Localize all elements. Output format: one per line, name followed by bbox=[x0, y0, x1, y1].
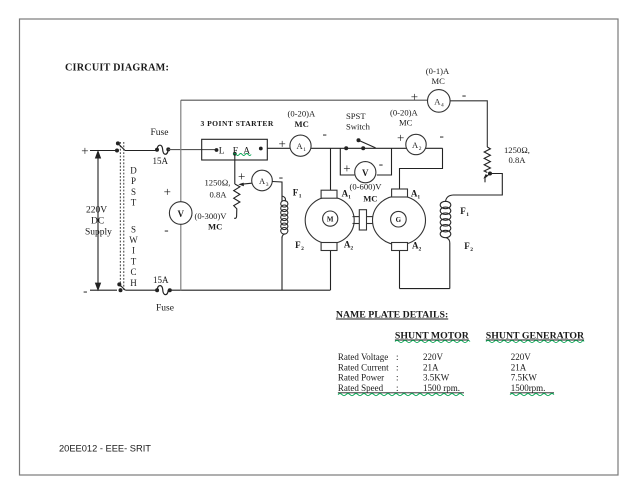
label DPST SWITCH vertical bbox=[129, 166, 138, 288]
voltmeter V600 loop wires bbox=[340, 148, 354, 175]
svg-text:21A: 21A bbox=[511, 363, 527, 373]
label (0-1)A MC bbox=[426, 66, 450, 86]
wire motor armature A2 down bbox=[330, 251, 332, 291]
fuse F2 bottom 15A bbox=[155, 286, 172, 295]
svg-text:1: 1 bbox=[417, 195, 420, 201]
svg-text:W: W bbox=[129, 235, 138, 245]
svg-text:Rated Current: Rated Current bbox=[338, 363, 389, 373]
svg-text:2: 2 bbox=[419, 146, 422, 152]
svg-text:1250Ω,: 1250Ω, bbox=[504, 145, 530, 155]
svg-text:SHUNT MOTOR: SHUNT MOTOR bbox=[395, 331, 470, 342]
nameplate table rows bbox=[338, 352, 546, 393]
ammeter A3 wiper arrow bbox=[238, 183, 252, 187]
svg-text:+: + bbox=[343, 160, 350, 175]
SPST switch blade and contacts bbox=[344, 138, 375, 150]
wire DPST to top fuse bbox=[125, 150, 157, 152]
svg-text:D: D bbox=[130, 166, 137, 176]
svg-text:2: 2 bbox=[301, 246, 304, 252]
svg-text:SHUNT GENERATOR: SHUNT GENERATOR bbox=[486, 331, 585, 342]
ammeter A1 bbox=[290, 135, 311, 156]
svg-text::: : bbox=[396, 363, 399, 373]
svg-text:T: T bbox=[131, 256, 137, 266]
svg-text:15A: 15A bbox=[153, 156, 169, 166]
label F2 motor bbox=[295, 240, 304, 252]
svg-text:220V: 220V bbox=[86, 206, 107, 216]
svg-text:15A: 15A bbox=[153, 275, 169, 285]
svg-text:Fuse: Fuse bbox=[151, 128, 169, 138]
svg-text:SPST: SPST bbox=[346, 111, 366, 121]
svg-text:-: - bbox=[164, 222, 168, 237]
svg-text:-: - bbox=[323, 126, 327, 141]
svg-text:(0-300)V: (0-300)V bbox=[195, 211, 228, 221]
svg-text:(0-1)A: (0-1)A bbox=[426, 66, 450, 76]
svg-text:+: + bbox=[81, 143, 88, 158]
motor M bbox=[305, 190, 354, 250]
top wire to A4 bbox=[181, 99, 428, 101]
svg-text:2: 2 bbox=[350, 246, 353, 252]
svg-text:3 POINT STARTER: 3 POINT STARTER bbox=[201, 119, 274, 128]
rheostat 1250ohm generator field bbox=[484, 147, 490, 173]
svg-text:1: 1 bbox=[303, 147, 306, 153]
wire starter F down to field rheostat bbox=[234, 154, 236, 184]
ammeter A4 bbox=[428, 90, 451, 113]
svg-text:L: L bbox=[219, 147, 225, 157]
svg-text:Rated Voltage: Rated Voltage bbox=[338, 352, 388, 362]
wire gen field F2 down bbox=[449, 243, 451, 289]
spellcheck wave under F A bbox=[233, 154, 251, 156]
wire DPST to bottom fuse bbox=[125, 289, 157, 291]
svg-text:(0-600)V: (0-600)V bbox=[350, 182, 383, 192]
svg-text:21A: 21A bbox=[423, 363, 439, 373]
supply plus terminal bbox=[81, 143, 88, 158]
label A2 gen bbox=[412, 241, 422, 253]
wire A4 to gen field rheostat bbox=[450, 101, 488, 147]
svg-text:V: V bbox=[177, 209, 184, 219]
spellcheck wave under 1500rpm bbox=[510, 394, 554, 396]
svg-text:S: S bbox=[131, 224, 136, 234]
svg-text:(0-20)A: (0-20)A bbox=[390, 108, 418, 118]
spellcheck wave under Rated Speed row bbox=[338, 394, 464, 396]
voltmeter V (0-300)V MC bbox=[169, 202, 192, 225]
ammeter A2 bbox=[406, 134, 426, 154]
svg-text:Rated Speed: Rated Speed bbox=[338, 383, 384, 393]
vertical supply voltmeter line bbox=[180, 100, 182, 290]
svg-text:DC: DC bbox=[91, 217, 104, 227]
svg-text:1500rpm.: 1500rpm. bbox=[511, 383, 546, 393]
svg-text:4: 4 bbox=[441, 102, 444, 108]
wire motor armature to main wire bbox=[330, 148, 332, 190]
wire gen rheostat to gen field F1 bbox=[453, 174, 502, 196]
svg-text::: : bbox=[396, 383, 399, 393]
svg-text:P: P bbox=[131, 176, 136, 186]
svg-text:-: - bbox=[379, 156, 383, 171]
svg-text:2: 2 bbox=[470, 247, 473, 253]
wire gen armature A2 down bbox=[399, 251, 401, 289]
svg-text:20EE012 - EEE- SRIT: 20EE012 - EEE- SRIT bbox=[59, 444, 151, 454]
bottom bus wire bbox=[170, 289, 330, 291]
svg-text:-: - bbox=[462, 87, 466, 102]
svg-text::: : bbox=[396, 373, 399, 383]
label F2 gen bbox=[464, 241, 473, 253]
wire A3 to motor field F1 bbox=[272, 182, 282, 202]
svg-text:0.8A: 0.8A bbox=[509, 155, 527, 165]
svg-text:CIRCUIT DIAGRAM:: CIRCUIT DIAGRAM: bbox=[65, 63, 169, 74]
ammeter A3 bbox=[252, 170, 273, 191]
wire motor field F2 to bottom bus bbox=[281, 237, 283, 290]
svg-text:S: S bbox=[131, 187, 136, 197]
voltmeter V (0-600)V MC bbox=[355, 162, 376, 183]
motor field coil F1 F2 bbox=[281, 196, 288, 238]
title CIRCUIT DIAGRAM bbox=[65, 63, 169, 74]
svg-text:MC: MC bbox=[208, 222, 222, 232]
starter box bbox=[202, 139, 268, 160]
svg-text:220V: 220V bbox=[511, 352, 532, 362]
label A2 motor bbox=[344, 240, 354, 252]
svg-text:1250Ω,: 1250Ω, bbox=[205, 178, 231, 188]
svg-text:(0-20)A: (0-20)A bbox=[288, 109, 316, 119]
svg-text:7.5KW: 7.5KW bbox=[511, 373, 538, 383]
svg-text:Fuse: Fuse bbox=[156, 304, 174, 314]
svg-text:V: V bbox=[362, 168, 369, 178]
svg-text:0.8A: 0.8A bbox=[210, 190, 228, 200]
wire supply plus to DPST bbox=[90, 150, 117, 152]
svg-text:1500 rpm.: 1500 rpm. bbox=[423, 383, 460, 393]
svg-text:Supply: Supply bbox=[85, 228, 112, 238]
svg-text:+: + bbox=[238, 169, 245, 184]
label F1 gen bbox=[460, 206, 469, 218]
supply minus terminal bbox=[83, 283, 87, 298]
label (0-20)A MC for A1 bbox=[288, 109, 316, 130]
svg-text:Switch: Switch bbox=[346, 122, 371, 132]
label (0-20)A MC for A2 bbox=[390, 108, 418, 128]
svg-text:1: 1 bbox=[299, 194, 302, 200]
starter terminals L F A bbox=[215, 147, 263, 157]
svg-text:3.5KW: 3.5KW bbox=[423, 373, 450, 383]
svg-text:MC: MC bbox=[432, 76, 446, 86]
svg-text:+: + bbox=[164, 184, 171, 199]
svg-text:+: + bbox=[279, 136, 286, 151]
supply dimension arrow 220V bbox=[96, 152, 101, 290]
svg-text:1: 1 bbox=[466, 212, 469, 218]
svg-text::: : bbox=[396, 352, 399, 362]
svg-text:220V: 220V bbox=[423, 352, 444, 362]
label F1 motor bbox=[293, 188, 302, 200]
generator field coil F1 F2 bbox=[440, 195, 453, 243]
label A1 gen bbox=[411, 189, 421, 201]
svg-text:3: 3 bbox=[266, 182, 269, 188]
wire A2 corner down to generator armature bbox=[400, 148, 443, 189]
main wire starter to A2 corner bbox=[267, 147, 442, 149]
svg-text:MC: MC bbox=[399, 117, 413, 127]
svg-text:C: C bbox=[130, 267, 136, 277]
fuse F1 top 15A bbox=[155, 145, 170, 154]
wire top fuse to starter L bbox=[168, 149, 217, 151]
svg-text:H: H bbox=[130, 278, 137, 288]
svg-text:M: M bbox=[327, 216, 334, 224]
svg-text:MC: MC bbox=[295, 119, 309, 129]
label SPST Switch bbox=[346, 111, 371, 132]
underline row Rated Speed bbox=[338, 392, 464, 394]
generator G bbox=[373, 189, 426, 251]
svg-text:+: + bbox=[411, 89, 418, 104]
svg-text:1: 1 bbox=[348, 195, 351, 201]
rheostat 1250ohm motor field bbox=[234, 184, 240, 218]
gen rheostat wiper arrow bbox=[483, 172, 492, 183]
svg-text:-: - bbox=[83, 283, 87, 298]
label A1 motor bbox=[342, 189, 352, 201]
wire supply minus to DPST bbox=[90, 289, 117, 291]
label 220V DC Supply bbox=[85, 206, 112, 238]
svg-text:Rated Power: Rated Power bbox=[338, 373, 384, 383]
svg-text:NAME PLATE DETAILS:: NAME PLATE DETAILS: bbox=[336, 310, 448, 321]
DPST switch bbox=[115, 141, 125, 292]
svg-text:T: T bbox=[131, 198, 137, 208]
generator bottom bus wire bbox=[400, 288, 450, 290]
shaft coupling bbox=[353, 210, 374, 230]
svg-text:-: - bbox=[440, 128, 444, 143]
svg-text:I: I bbox=[132, 246, 135, 256]
svg-text:+: + bbox=[397, 130, 404, 145]
svg-text:MC: MC bbox=[363, 194, 377, 204]
svg-text:G: G bbox=[396, 216, 402, 224]
svg-text:2: 2 bbox=[419, 247, 422, 253]
